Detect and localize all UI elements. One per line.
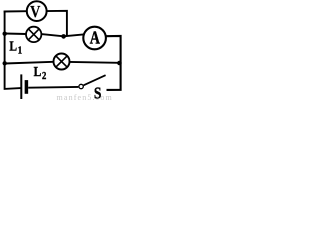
node: junction dot under mid vertical (61, 34, 66, 39)
svg-text:S: S (94, 84, 102, 101)
wire: top right segment + mid vertical down to node (47, 11, 67, 36)
switch S pivot circle (79, 84, 83, 88)
svg-text:V: V (30, 3, 40, 21)
wire: left vertical with bottom-left corner (5, 11, 21, 89)
voltmeter V1 letter (30, 3, 40, 21)
battery long plate (20, 74, 22, 99)
wire: left vertical to lamp L2 (5, 62, 54, 64)
svg-text:manfen5.com: manfen5.com (57, 93, 113, 101)
svg-text:1: 1 (18, 45, 22, 57)
svg-text:L: L (9, 38, 17, 53)
node: junction dot left on L2 row (2, 61, 6, 65)
wire: lamp L1 to ammeter (41, 34, 83, 36)
wire: top left segment (4, 10, 27, 12)
voltmeter V1 circle (27, 1, 47, 21)
ammeter A1 circle (83, 27, 106, 50)
wire: lamp L2 to right vertical (70, 61, 119, 64)
label L2 (34, 64, 47, 82)
switch S blade (open) (84, 75, 106, 85)
lamp L2 circle with cross (54, 54, 70, 70)
wire: left vertical to lamp L1 (5, 33, 26, 36)
lamp L1 circle with cross (26, 27, 41, 42)
node: junction dot left of L1 row (2, 32, 6, 36)
battery short plate (25, 80, 29, 94)
svg-text:A: A (90, 29, 101, 48)
svg-text:L: L (34, 64, 42, 79)
svg-text:2: 2 (42, 70, 46, 82)
label S (94, 84, 102, 103)
wire: battery to switch pivot (28, 86, 78, 89)
ammeter A1 letter (90, 29, 101, 48)
node: junction dot on right vertical at L2 row (117, 61, 122, 66)
wire: ammeter to top-right corner, right vertical (106, 36, 121, 90)
label L1 (9, 38, 22, 56)
